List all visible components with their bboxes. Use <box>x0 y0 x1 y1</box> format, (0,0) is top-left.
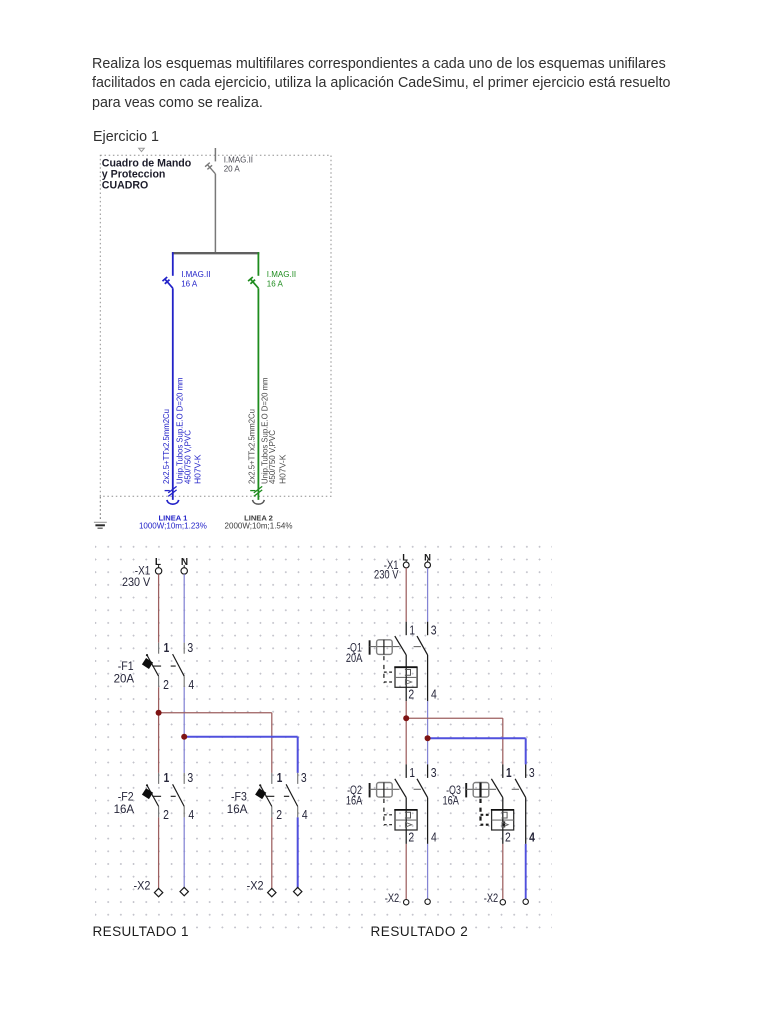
svg-text:-X2: -X2 <box>484 891 499 905</box>
svg-text:I.MAG.II: I.MAG.II <box>267 270 296 279</box>
svg-text:4: 4 <box>431 830 437 844</box>
svg-text:4: 4 <box>188 678 194 692</box>
svg-text:1: 1 <box>164 771 170 785</box>
intro paragraph <box>92 55 671 113</box>
svg-text:230 V: 230 V <box>122 575 150 589</box>
svg-text:H07V-K: H07V-K <box>194 454 203 484</box>
result 2 caption <box>371 924 469 939</box>
R2 terminal -X2 c <box>500 900 505 905</box>
svg-text:2: 2 <box>408 688 414 702</box>
svg-text:1: 1 <box>506 766 512 780</box>
cursor mark above board <box>139 148 145 151</box>
R1 -X1 230V labels <box>122 563 151 589</box>
R2 junction neutral <box>425 735 431 741</box>
R2 L N labels <box>402 552 431 563</box>
svg-text:230 V: 230 V <box>374 568 399 582</box>
R2 wire N between Q1 and Q2 <box>427 701 429 764</box>
svg-text:4: 4 <box>188 808 194 822</box>
R1 terminal -X2 c <box>268 888 276 896</box>
svg-text:16A: 16A <box>443 794 459 808</box>
R1 wire N between F1 and F2 <box>183 687 185 773</box>
branch 2 breaker I.MAG.II 16A <box>248 277 258 288</box>
R2 neutral branch wire to Q3 <box>428 738 526 764</box>
R2 terminal -X1 L <box>403 560 409 568</box>
R1 terminal -X1 L <box>155 565 161 574</box>
svg-text:-X2: -X2 <box>134 878 151 892</box>
R2 terminal -X2 a <box>404 900 409 905</box>
svg-text:20 A: 20 A <box>224 165 241 174</box>
R1 wire L between F1 and F2 <box>158 687 160 773</box>
R1 terminal -X2 d <box>294 887 302 895</box>
result 1 caption <box>93 924 189 939</box>
board title CUADRO <box>102 158 192 192</box>
R2 -X1 230V labels <box>374 558 399 582</box>
svg-text:N: N <box>424 552 431 563</box>
svg-text:-X2: -X2 <box>385 891 400 905</box>
svg-text:3: 3 <box>301 771 307 785</box>
R2 wire L to -X2 <box>405 844 407 900</box>
main breaker I.MAG.II 20A <box>205 163 215 174</box>
breaker Q2 16A <box>346 764 437 844</box>
label I.MAG.II 20 A <box>224 155 253 173</box>
svg-text:2: 2 <box>163 808 169 822</box>
R2 -X2 labels <box>385 891 499 905</box>
R1 phase branch wire to F3 <box>159 713 272 773</box>
R1 wire N (top) <box>183 574 185 643</box>
svg-text:4: 4 <box>529 830 535 844</box>
R1 wire L to -X2 <box>158 817 160 889</box>
svg-text:4: 4 <box>302 808 308 822</box>
svg-text:3: 3 <box>431 623 437 637</box>
R1 neutral branch wire to F3 <box>184 737 298 773</box>
R1 branch neutral to -X2 <box>297 817 299 888</box>
svg-text:16A: 16A <box>227 802 248 816</box>
svg-text:3: 3 <box>187 771 193 785</box>
svg-text:4: 4 <box>431 688 437 702</box>
board earth riser (dotted) <box>99 497 101 521</box>
svg-text:16A: 16A <box>346 794 362 808</box>
breaker F2 16A <box>114 771 195 822</box>
svg-text:L: L <box>402 552 408 563</box>
breaker Q1 20A <box>346 622 437 702</box>
svg-text:1000W;10m;1.23%: 1000W;10m;1.23% <box>139 521 207 530</box>
branch 1 conductor slashes <box>165 486 177 496</box>
svg-text:16 A: 16 A <box>181 279 198 288</box>
svg-text:20A: 20A <box>346 651 362 665</box>
ground <box>94 522 107 528</box>
svg-text:1: 1 <box>164 641 170 655</box>
R1 junction neutral <box>181 734 187 740</box>
bus split bar <box>172 252 259 254</box>
R1 terminal -X2 b <box>180 887 188 895</box>
breaker F3 16A <box>227 771 308 822</box>
R1 wire N to -X2 <box>183 817 185 888</box>
svg-text:450/750 V,PVC: 450/750 V,PVC <box>184 430 193 484</box>
svg-text:3: 3 <box>187 641 193 655</box>
dotted grid background of CADe_SIMU sheets <box>95 541 552 931</box>
svg-text:1: 1 <box>409 766 415 780</box>
R2 wire N to -X2 <box>427 844 429 899</box>
svg-text:2: 2 <box>408 830 414 844</box>
label I.MAG.II 16 A (green) <box>267 270 296 288</box>
R2 terminal -X2 d <box>523 899 528 904</box>
R1 -X2 labels <box>134 878 264 892</box>
svg-text:16 A: 16 A <box>267 279 284 288</box>
svg-text:3: 3 <box>431 766 437 780</box>
svg-text:16A: 16A <box>114 802 135 816</box>
R2 branch phase to -X2 <box>502 844 504 900</box>
exercise heading <box>93 129 159 145</box>
R1 wire L phase (top) <box>158 574 160 643</box>
svg-text:2x2.5+TTx2.5mm2Cu: 2x2.5+TTx2.5mm2Cu <box>162 409 171 484</box>
R2 wire L between Q1 and Q2 <box>405 701 407 764</box>
svg-text:2000W;10m;1.54%: 2000W;10m;1.54% <box>225 521 293 530</box>
svg-text:2: 2 <box>276 808 282 822</box>
svg-text:-X2: -X2 <box>247 878 264 892</box>
R2 terminal -X1 N <box>425 560 431 568</box>
svg-text:2: 2 <box>163 678 169 692</box>
branch 2 conductor slashes <box>250 486 262 496</box>
R2 branch neutral to -X2 <box>525 844 527 899</box>
svg-text:I.MAG.II: I.MAG.II <box>224 155 253 164</box>
svg-text:1: 1 <box>277 771 283 785</box>
branch 1 riser top <box>172 252 174 276</box>
incoming feeder wire <box>214 148 216 161</box>
distribution board boundary (dotted) <box>100 155 331 496</box>
branch 1 cable description (rotated) <box>162 377 203 484</box>
R2 terminal -X2 b <box>425 899 430 904</box>
svg-text:450/750 V,PVC: 450/750 V,PVC <box>268 430 277 484</box>
R2 wire N top <box>427 568 429 622</box>
branch 1 load arrow <box>167 500 179 504</box>
R1 junction phase <box>156 710 162 716</box>
branch 2 riser top <box>257 252 259 276</box>
svg-text:I.MAG.II: I.MAG.II <box>181 270 210 279</box>
breaker Q3 16A <box>443 764 535 844</box>
branch 2 cable run <box>257 288 259 500</box>
svg-text:20A: 20A <box>114 672 135 686</box>
R1 branch phase to -X2 <box>271 817 273 889</box>
svg-text:L: L <box>155 557 161 568</box>
svg-text:1: 1 <box>409 623 415 637</box>
svg-text:N: N <box>181 557 188 568</box>
svg-text:2: 2 <box>505 830 511 844</box>
breaker F1 20A <box>114 641 195 692</box>
branch 1 cable run <box>172 288 174 500</box>
svg-text:2x2.5+TTx2.5mm2Cu: 2x2.5+TTx2.5mm2Cu <box>248 409 257 484</box>
LINEA 1 labels <box>139 514 207 531</box>
R1 terminal -X2 a <box>154 888 162 896</box>
R2 phase branch wire to Q3 <box>406 718 503 764</box>
svg-text:H07V-K: H07V-K <box>279 454 288 484</box>
feeder wire to bus <box>214 174 216 252</box>
R2 junction phase <box>403 715 409 721</box>
svg-text:CUADRO: CUADRO <box>102 180 149 192</box>
R1 terminal -X1 N <box>181 565 187 574</box>
R2 wire L top <box>405 568 407 622</box>
branch 2 cable description (rotated) <box>248 377 288 484</box>
LINEA 2 labels <box>225 514 293 531</box>
svg-text:3: 3 <box>529 766 535 780</box>
branch 2 load arrow (gray) <box>253 500 265 504</box>
branch 1 breaker I.MAG.II 16A <box>163 277 173 288</box>
R1 L N labels <box>155 557 188 568</box>
label I.MAG.II 16 A (blue) <box>181 270 210 288</box>
